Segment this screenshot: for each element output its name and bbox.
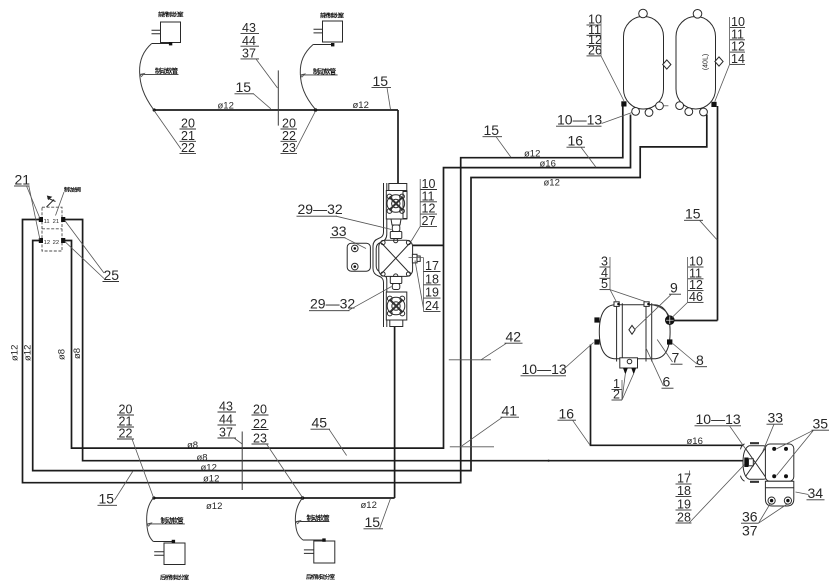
svg-text:23: 23 (253, 432, 267, 446)
svg-text:14: 14 (731, 52, 745, 66)
svg-text:21: 21 (15, 172, 31, 188)
wire top front pipe y=110 (154, 109, 398, 111)
svg-text:5: 5 (601, 277, 608, 291)
tank2 top port circle (693, 10, 702, 19)
svg-text:制动总阀: 制动总阀 (64, 186, 81, 194)
svg-text:15: 15 (365, 514, 381, 530)
wire rear pipe 5 y=498 (153, 327, 394, 498)
leader 20/21/22 to pipe junction (154, 111, 181, 150)
svg-text:9: 9 (670, 280, 678, 296)
wet tank strap 2 (646, 303, 652, 361)
bracket bolt right (37) (784, 497, 791, 504)
tank1 bottom port circle c (656, 102, 664, 110)
svg-text:22: 22 (181, 141, 195, 155)
svg-text:29—32: 29—32 (298, 201, 343, 217)
tank1 bottom port circle a (632, 108, 640, 116)
drain valve bolt a (623, 368, 628, 375)
plate hole 2 (784, 447, 788, 451)
svg-text:制动软管: 制动软管 (161, 516, 185, 525)
upper valve body (386, 191, 407, 220)
strap1 top pad (614, 302, 619, 307)
drain valve bolt b (631, 368, 636, 375)
leader 15 to pipe3 (115, 471, 134, 500)
leader 21 to port 12 (29, 186, 40, 240)
svg-text:26: 26 (588, 43, 602, 57)
svg-text:22: 22 (53, 240, 59, 246)
leader 15 to pipe A (496, 137, 511, 158)
leader (387, 88, 391, 110)
port 21 square (61, 217, 65, 222)
tank2 bottom-right port square (711, 102, 716, 107)
X cross lines (382, 243, 411, 274)
stack side line (729, 17, 731, 64)
leader to bottom tee tick (234, 438, 242, 444)
svg-text:11: 11 (44, 219, 50, 225)
svg-text:ø12: ø12 (524, 149, 540, 160)
tank1 side diamond (663, 60, 671, 69)
svg-text:6: 6 (663, 374, 671, 390)
svg-text:28: 28 (677, 511, 691, 525)
svg-text:制动软管: 制动软管 (307, 513, 331, 522)
svg-text:ø16: ø16 (540, 159, 556, 170)
brake hose 4 (295, 498, 303, 540)
tank2 bottom port circle a (676, 102, 684, 110)
svg-text:42: 42 (506, 329, 522, 345)
bracket bolt left (36) (768, 497, 775, 504)
svg-text:15: 15 (685, 206, 701, 222)
svg-text:10—13: 10—13 (522, 361, 567, 377)
leader 1/2 to drain bolts (622, 374, 634, 400)
leader 46 to port circle (672, 302, 688, 317)
box3 glad-hand fork (154, 552, 164, 556)
quick release valve lower (29-32) body (386, 292, 407, 320)
stack side line (621, 380, 623, 400)
svg-text:37: 37 (742, 523, 758, 539)
tee tick on front pipe (277, 70, 279, 125)
svg-text:15: 15 (236, 79, 252, 95)
svg-text:10—13: 10—13 (557, 112, 602, 128)
box3 top stub and nub (153, 541, 173, 543)
leader 42 (481, 343, 507, 360)
port 22 square (61, 238, 65, 243)
svg-text:22: 22 (119, 427, 133, 441)
pedal symbol (47, 198, 56, 207)
svg-text:33: 33 (331, 223, 347, 239)
leader 9 to diamond (635, 294, 672, 329)
wet tank strap 1 (617, 303, 623, 361)
brake hose 2 (top centre) (300, 45, 315, 110)
svg-text:(40L): (40L) (703, 54, 710, 70)
svg-text:ø8: ø8 (187, 440, 198, 451)
svg-text:15: 15 (484, 122, 500, 138)
air reservoir tank 2 (vertical, 40L) (676, 17, 716, 110)
svg-text:37: 37 (219, 426, 233, 440)
leader 16 to drain pipe corner (573, 420, 590, 445)
svg-text:16: 16 (559, 406, 575, 422)
port 11 square (39, 217, 43, 222)
svg-text:17: 17 (425, 259, 439, 273)
wire pipe B: tank1 port to brake valve port 22 (63, 115, 631, 449)
leader 33 to plate (345, 238, 367, 249)
bottom tee tick (241, 432, 243, 491)
svg-text:前桥制动分室: 前桥制动分室 (320, 12, 344, 20)
brake chamber box 3 (bottom left) (164, 543, 185, 565)
brake chamber box1 glad-hand fork (152, 30, 161, 34)
svg-text:前桥制动分室: 前桥制动分室 (158, 11, 184, 19)
wire pipe A: tank1 port to brake valve port 11 (23, 106, 623, 483)
svg-text:ø12: ø12 (361, 500, 377, 511)
leader 6 (646, 347, 664, 386)
svg-text:ø12: ø12 (218, 101, 234, 112)
leader 24-stack diagonal (415, 261, 423, 309)
leader 27-stack to valve corner (411, 226, 420, 241)
leader 15 to tank2 down pipe (700, 220, 718, 240)
svg-text:ø8: ø8 (72, 348, 83, 359)
svg-text:45: 45 (312, 415, 328, 431)
svg-text:16: 16 (568, 133, 584, 149)
junction dot front pipe left end (153, 108, 156, 111)
svg-text:ø16: ø16 (687, 436, 703, 447)
svg-text:19: 19 (677, 498, 691, 512)
tank2 bottom port circle b (685, 108, 693, 116)
relay valve clamp arcs (741, 444, 745, 481)
wet tank left lower port square (594, 339, 599, 344)
tank1 port c tick (663, 105, 668, 107)
svg-text:15: 15 (373, 73, 389, 89)
wet tank hose to port 46 (650, 305, 669, 317)
svg-text:46: 46 (689, 290, 703, 304)
brake chamber box2 bottom stub and nub (313, 44, 333, 46)
leader 5 to strap2 (610, 290, 647, 302)
four-circuit protection valve body (X) (379, 240, 413, 276)
leader 10-13 to tank1 circle port (602, 113, 633, 124)
leader 43/44/37 to tee tick (256, 59, 278, 88)
svg-text:制动软管: 制动软管 (155, 66, 179, 75)
leader 29-32 upper (336, 216, 392, 229)
svg-text:ø12: ø12 (206, 501, 222, 512)
leader 14 to tank2 right port (715, 64, 730, 101)
plate hole 1 (772, 447, 776, 451)
svg-text:20: 20 (253, 403, 267, 417)
valve right port fitting (412, 254, 417, 263)
svg-text:ø12: ø12 (203, 474, 219, 485)
wire stub: protection valve inlet tee (412, 244, 444, 246)
leaders 35 to plate holes (777, 430, 814, 475)
box4 glad-hand fork (304, 550, 314, 554)
leader 10-13 to wet tank port (561, 343, 594, 372)
svg-text:27: 27 (422, 214, 436, 228)
leader 16 to pipe B (581, 147, 596, 167)
brake chamber box 4 (bottom centre) (314, 541, 335, 563)
tank2 bottom port circle c (700, 108, 708, 116)
strap2 top pad (644, 302, 649, 307)
svg-text:制动软管: 制动软管 (313, 67, 337, 76)
relay valve X cross (746, 448, 766, 477)
brake chamber box 1 (top left) (161, 22, 181, 43)
lower valve bottom cap (390, 320, 403, 327)
leader 10-13 relay (730, 426, 747, 450)
leader 45 (329, 429, 347, 455)
leader 8 (673, 344, 697, 365)
leader to hose junction (132, 439, 154, 498)
junction dot rear pipe hose 1 (152, 496, 155, 499)
svg-text:44: 44 (219, 413, 233, 427)
wire tank2 right port down to wet tank port 46 (675, 106, 718, 321)
brake master valve divider (42, 228, 62, 230)
stack side line (600, 15, 602, 56)
svg-text:18: 18 (425, 272, 439, 286)
four-circuit protection valve assembly: bracket strip (373, 183, 387, 327)
brake chamber box1 bottom stub and nub (152, 43, 172, 45)
stack tick (689, 471, 691, 475)
svg-text:21: 21 (53, 219, 59, 225)
leader 29-32 lower (348, 287, 392, 311)
leader 25 to port 22 (65, 242, 104, 279)
box4 top stub and nub (303, 539, 323, 541)
brake chamber box2 glad-hand fork (314, 29, 323, 33)
port 12 square (39, 238, 43, 243)
relay valve mounting plate 33 (765, 444, 793, 481)
leaders 36/37 to bolts (759, 504, 787, 523)
leader 15 to pipe5 (380, 499, 391, 529)
leader 34 (796, 492, 809, 495)
plate hole 4 (784, 474, 788, 478)
leader port tick (409, 258, 424, 262)
svg-text:后桥制动分室: 后桥制动分室 (306, 573, 335, 581)
upper valve lower fitting stack (391, 219, 401, 225)
svg-text:35: 35 (813, 416, 829, 432)
valve corner lugs (381, 240, 385, 244)
quick release valve upper (29-32) top cap (389, 184, 407, 192)
wet tank port 46 circle (666, 316, 675, 325)
svg-text:12: 12 (44, 240, 50, 246)
svg-text:33: 33 (768, 410, 784, 426)
leader to hose2 junction (267, 444, 303, 498)
bracket 34 below plate (765, 481, 793, 506)
wet tank diamond (9) (629, 325, 635, 334)
upper valve detail circles (387, 194, 392, 199)
plate hole 3 (772, 474, 776, 478)
plate bolt hole lower (352, 263, 359, 270)
leader 15 (254, 94, 271, 109)
wire pipe C: tank2 port to brake valve port 12 (33, 115, 707, 471)
leader valve name (56, 192, 65, 216)
tank2 side diamond (715, 57, 723, 66)
rear relay emergency valve (bottom right) body with X (743, 446, 768, 479)
junction dot rear pipe hose 2 (301, 496, 305, 500)
brake chamber box 2 (top centre) (323, 21, 343, 42)
stack side line (609, 257, 611, 290)
lower fitting stack (390, 277, 402, 284)
tank1 top port circle (639, 9, 648, 18)
wire top pipe drop to protection valve x=398 (397, 110, 399, 184)
tick 42 crossing pipes (449, 359, 491, 361)
svg-text:ø12: ø12 (353, 100, 369, 111)
svg-text:18: 18 (677, 484, 691, 498)
tick 41 crossing pipes (450, 446, 494, 448)
svg-text:7: 7 (672, 350, 680, 366)
wet tank bottom drain valve (620, 358, 638, 368)
svg-text:22: 22 (253, 417, 267, 431)
svg-text:2: 2 (613, 388, 620, 402)
wire wet tank drain to rear relay valve (591, 345, 744, 446)
leader 21 to port 11 (27, 186, 41, 219)
stack side line (422, 261, 424, 311)
brake hose 1 (top left) (140, 44, 154, 110)
svg-text:43: 43 (219, 400, 233, 414)
lower valve circle (387, 297, 405, 315)
junction dot pipe2 at x548 (548, 460, 550, 462)
stack side line (419, 179, 421, 226)
brake master valve body (dashed box) (42, 207, 62, 251)
svg-text:23: 23 (282, 141, 296, 155)
svg-text:34: 34 (808, 485, 824, 501)
tank1 bottom port circle b (645, 109, 653, 117)
svg-text:25: 25 (104, 267, 120, 283)
wet tank right lower port square (8) (667, 339, 672, 344)
wet tank left upper port square (594, 317, 599, 322)
leader 5 to strap1 (610, 290, 617, 302)
plate bolt hole upper (352, 245, 359, 252)
bracket mounting plate 33 (left) (347, 243, 370, 271)
junction dot front pipe hose 2 (314, 108, 318, 112)
svg-text:10—13: 10—13 (696, 411, 741, 427)
stack side line (687, 257, 689, 302)
svg-text:ø12: ø12 (201, 462, 217, 473)
wire pipe 2: brake valve port 21 to rear relay valve (63, 220, 743, 461)
svg-text:后桥制动分室: 后桥制动分室 (160, 574, 189, 582)
leader 28 to relay valve (690, 465, 745, 523)
svg-text:8: 8 (696, 352, 704, 368)
svg-text:29—32: 29—32 (310, 296, 355, 312)
wet tank (horizontal reservoir) body (599, 305, 670, 359)
bracket divider (765, 487, 793, 489)
brake hose 3 (147, 498, 154, 542)
upper valve main circle (387, 195, 405, 213)
leader 20/22/23 to junction dot (296, 111, 316, 149)
svg-text:ø12: ø12 (23, 345, 34, 361)
svg-text:41: 41 (502, 403, 518, 419)
svg-text:37: 37 (242, 47, 256, 61)
relay valve left port fitting (744, 458, 748, 468)
svg-text:24: 24 (425, 299, 439, 313)
tank1 bottom-left port square (621, 101, 626, 106)
leader 33 relay (763, 424, 775, 452)
upper valve right flange (403, 192, 407, 219)
svg-text:ø12: ø12 (544, 178, 560, 189)
air reservoir tank 1 (vertical) (624, 17, 664, 110)
svg-text:ø8: ø8 (57, 349, 68, 360)
svg-text:15: 15 (99, 491, 115, 507)
leader 7 (657, 340, 672, 363)
svg-text:ø12: ø12 (10, 345, 21, 361)
leader 25 to port 21 (65, 221, 104, 274)
svg-text:19: 19 (425, 286, 439, 300)
leader 41 (462, 417, 503, 446)
leader 26 to tank1 port (601, 56, 624, 101)
